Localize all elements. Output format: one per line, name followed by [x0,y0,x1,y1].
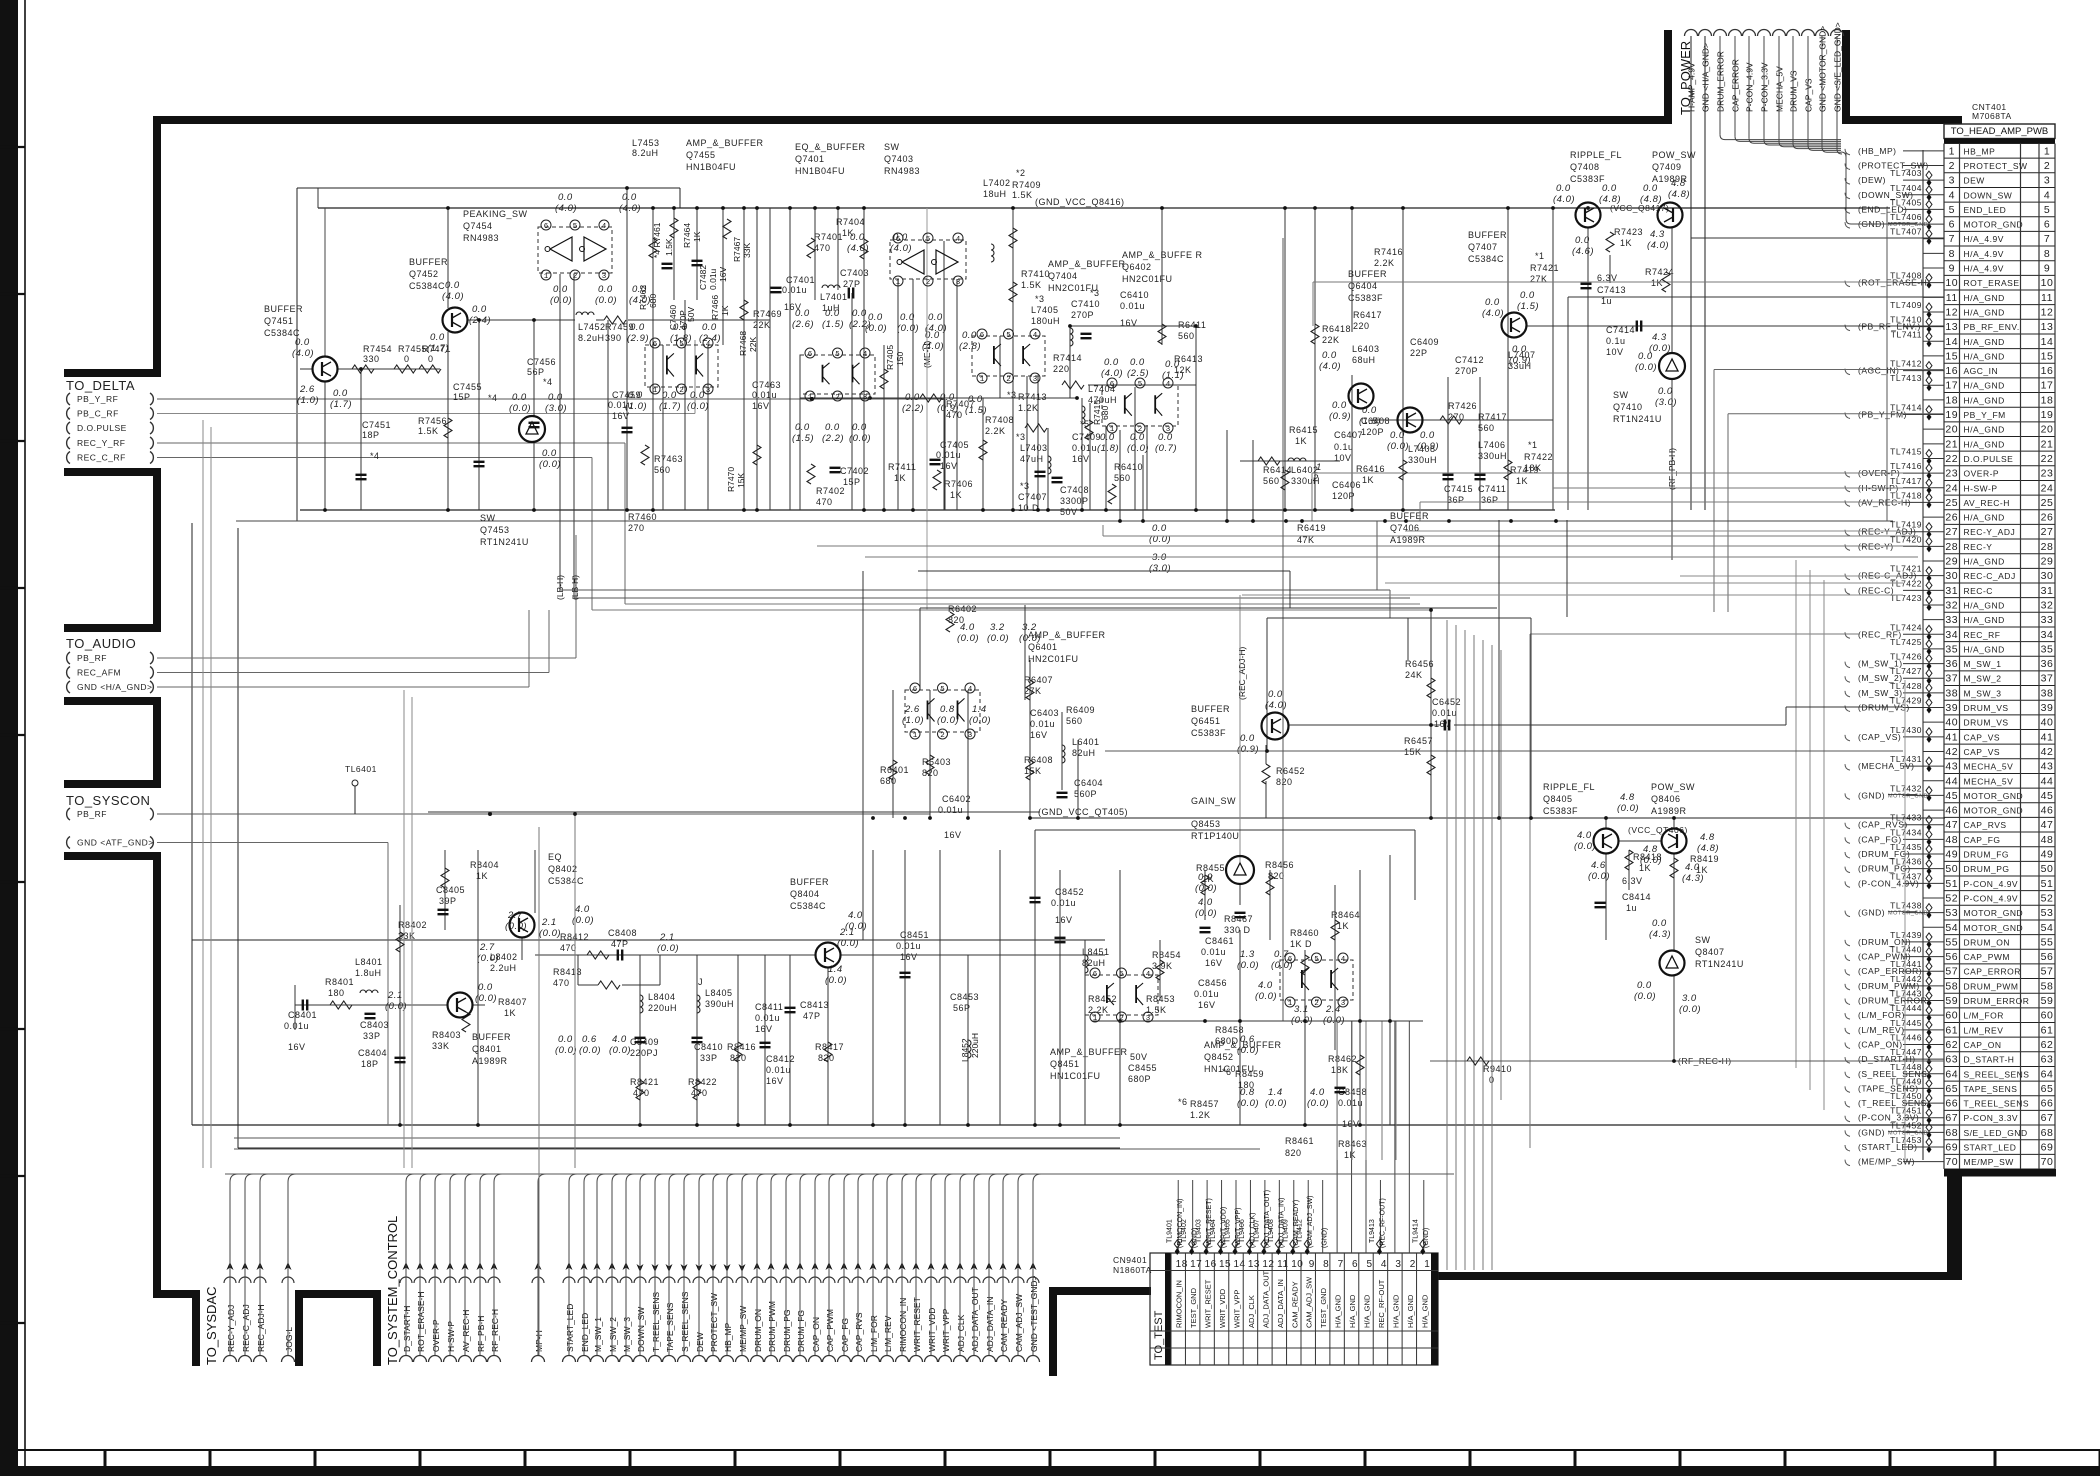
svg-text:H/A_GND: H/A_GND [1964,513,2005,523]
svg-text:0.8: 0.8 [940,704,955,715]
svg-text:(0.0): (0.0) [579,1045,601,1056]
svg-text:Q8405: Q8405 [1543,794,1573,804]
svg-text:4: 4 [1341,956,1346,964]
svg-text:R6417: R6417 [1353,310,1382,320]
svg-text:R7454: R7454 [363,344,392,354]
resistors (horizontal) [352,365,374,373]
svg-text:EQ: EQ [548,852,562,862]
svg-text:(4.0): (4.0) [619,203,641,214]
svg-text:68: 68 [1945,1127,1958,1139]
svg-text:(REC_RF-OUT): (REC_RF-OUT) [1379,1198,1386,1248]
svg-text:M7068TA: M7068TA [1972,111,2012,121]
svg-text:C6409: C6409 [1410,337,1439,347]
svg-text:TL7423: TL7423 [1890,593,1922,603]
svg-text:RF_PB-H: RF_PB-H [476,1316,486,1352]
svg-text:28: 28 [2041,541,2054,553]
svg-text:L/M_REV: L/M_REV [883,1315,893,1352]
transistor Q8404 [816,943,841,968]
svg-text:(2.9): (2.9) [627,333,649,344]
svg-text:11: 11 [2041,292,2053,304]
svg-text:TL9405: TL9405 [1225,1219,1232,1243]
svg-text:(4.0): (4.0) [555,203,577,214]
svg-text:1: 1 [896,279,901,287]
svg-text:DEW: DEW [695,1332,705,1352]
svg-text:52: 52 [1945,892,1958,904]
upper block bottom rail [300,509,1555,511]
svg-text:0.0: 0.0 [598,284,613,295]
svg-text:1K: 1K [1344,1150,1356,1160]
svg-text:H/A_GND: H/A_GND [1964,644,2005,654]
svg-text:560: 560 [654,465,671,475]
svg-text:(DRUM_VS): (DRUM_VS) [1858,703,1910,713]
svg-text:L/M_FOR: L/M_FOR [1964,1011,2004,1021]
svg-text:T_REEL_SENS: T_REEL_SENS [651,1292,661,1352]
svg-text:46: 46 [1945,805,1958,817]
svg-text:AMP_&_BUFFER: AMP_&_BUFFER [1050,1047,1128,1057]
svg-text:D_START-H: D_START-H [1964,1055,2015,1065]
svg-text:R7470: R7470 [726,467,736,492]
svg-text:(GND): (GND) [1858,908,1885,918]
svg-text:R7408: R7408 [985,415,1014,425]
svg-text:3.0: 3.0 [1682,993,1697,1004]
svg-text:CAP_ERROR: CAP_ERROR [1964,967,2021,977]
transistor Q7452 [443,308,468,333]
svg-text:0.0: 0.0 [850,232,865,243]
svg-text:Q7401: Q7401 [795,154,825,164]
svg-text:ADJ_DATA_OUT: ADJ_DATA_OUT [1261,1270,1270,1328]
svg-text:64: 64 [2041,1068,2054,1080]
svg-text:ADJ_CLK: ADJ_CLK [956,1314,966,1352]
svg-text:64: 64 [1945,1068,1958,1080]
svg-text:47P: 47P [803,1011,821,1021]
svg-text:18: 18 [2041,394,2054,406]
svg-text:C8455: C8455 [1128,1063,1157,1073]
svg-text:(0.9): (0.9) [937,403,959,414]
svg-text:REC_AFM: REC_AFM [77,668,121,678]
svg-text:H/A_GND: H/A_GND [1964,557,2005,567]
svg-text:R7422: R7422 [1524,452,1553,462]
svg-text:0.1u: 0.1u [1334,442,1354,452]
svg-text:1: 1 [1316,462,1322,473]
svg-text:5: 5 [1314,956,1319,964]
svg-text:R7416: R7416 [1374,247,1403,257]
svg-text:15: 15 [1945,350,1958,362]
svg-text:0.0: 0.0 [1638,351,1653,362]
svg-text:18: 18 [1176,1259,1188,1270]
svg-text:18: 18 [1945,394,1958,406]
svg-text:46: 46 [2041,805,2054,817]
svg-text:1: 1 [913,732,918,740]
svg-text:4: 4 [968,686,973,694]
svg-text:GND <H/A_GND>: GND <H/A_GND> [77,682,152,692]
svg-text:33: 33 [1945,614,1958,626]
svg-text:H/A_GND: H/A_GND [1964,395,2005,405]
svg-text:1K D: 1K D [1290,939,1312,949]
svg-text:10: 10 [2041,277,2054,289]
svg-text:C8453: C8453 [950,992,979,1002]
svg-text:270P: 270P [1455,366,1478,376]
svg-text:4.8: 4.8 [1671,178,1686,189]
svg-text:*2: *2 [1016,168,1026,178]
svg-text:47P: 47P [611,939,629,949]
svg-text:560: 560 [1178,331,1195,341]
svg-text:(0.0): (0.0) [539,459,561,470]
svg-text:2: 2 [573,273,578,281]
svg-text:START_LED: START_LED [1964,1143,2017,1153]
svg-text:REC_Y_RF: REC_Y_RF [77,438,125,448]
svg-text:(4.8): (4.8) [1599,194,1621,205]
svg-text:(0.0): (0.0) [1640,855,1662,866]
svg-text:30: 30 [1945,570,1958,582]
svg-text:0.01u: 0.01u [938,805,963,815]
transistor Q8405 [1594,829,1619,854]
svg-text:20: 20 [2041,424,2054,436]
svg-text:(0.9): (0.9) [1417,441,1439,452]
transistor Q7451 [313,357,338,382]
svg-text:0.0: 0.0 [825,422,840,433]
svg-text:PB_RF: PB_RF [77,809,107,819]
svg-text:MOTOR_GND: MOTOR_GND [1964,908,2024,918]
svg-text:16V: 16V [1198,1000,1216,1010]
package Q7454 inverter pair [538,227,612,273]
svg-text:CAP_VS: CAP_VS [1964,747,2001,757]
svg-text:PEAKING_SW: PEAKING_SW [463,209,528,219]
svg-text:62: 62 [2041,1039,2054,1051]
svg-text:(DEW): (DEW) [1858,175,1886,185]
svg-text:DEW: DEW [1964,176,1985,186]
svg-text:2.1: 2.1 [659,932,675,943]
svg-text:(GND): (GND) [1858,790,1885,800]
svg-text:C5384C: C5384C [790,901,826,911]
package Q7404 [972,336,1045,376]
svg-text:68: 68 [2041,1127,2054,1139]
transistor Q8401 [448,993,473,1018]
svg-text:PB_Y_FM: PB_Y_FM [1964,410,2006,420]
svg-text:R8460: R8460 [1290,928,1319,938]
svg-text:1u: 1u [1626,903,1637,913]
svg-text:TL9414: TL9414 [1412,1219,1419,1243]
svg-text:0.0: 0.0 [852,422,867,433]
svg-text:CAP_RVS: CAP_RVS [1964,820,2007,830]
svg-text:(2.6): (2.6) [792,319,814,330]
svg-text:50V: 50V [1130,1052,1148,1062]
svg-text:RN4983: RN4983 [463,233,499,243]
svg-text:5: 5 [1366,1259,1372,1270]
svg-text:680D: 680D [1215,1036,1239,1046]
svg-text:16V: 16V [1205,958,1223,968]
svg-text:27P: 27P [843,279,861,289]
svg-text:C7413: C7413 [1597,285,1626,295]
svg-text:120P: 120P [1361,427,1384,437]
svg-text:220uH: 220uH [648,1003,677,1013]
svg-text:32: 32 [1945,599,1958,611]
svg-text:560P: 560P [1074,789,1097,799]
svg-text:63: 63 [1945,1054,1958,1066]
svg-text:560: 560 [1263,476,1280,486]
svg-text:3: 3 [1166,426,1171,434]
svg-text:POW_SW: POW_SW [1652,150,1696,160]
svg-text:6: 6 [1352,1259,1358,1270]
svg-text:5: 5 [679,341,684,349]
package Q7455 [645,345,718,387]
svg-text:1: 1 [653,387,658,395]
inductors (vertical) [991,244,994,250]
svg-text:RF_REC-H: RF_REC-H [490,1309,500,1352]
svg-text:0.0: 0.0 [630,322,645,333]
svg-text:38: 38 [1945,687,1958,699]
svg-text:TO_SYSTEM_CONTROL: TO_SYSTEM_CONTROL [385,1216,400,1365]
svg-text:R6456: R6456 [1405,659,1434,669]
svg-text:WRIT_RESET: WRIT_RESET [912,1297,922,1352]
svg-text:GAIN_SW: GAIN_SW [1191,796,1236,806]
svg-text:25: 25 [2041,497,2054,509]
svg-text:6: 6 [980,332,985,340]
svg-text:TL7438: TL7438 [1890,901,1922,911]
svg-text:0.0: 0.0 [558,1034,573,1045]
svg-text:R6418: R6418 [1322,324,1351,334]
svg-text:0.0: 0.0 [1556,183,1571,194]
svg-text:BUFFER: BUFFER [1348,269,1387,279]
svg-text:CAP_RVS: CAP_RVS [854,1312,864,1352]
sheet bottom scale row [0,1449,2100,1451]
svg-text:C7411: C7411 [1478,484,1506,494]
svg-text:R8467: R8467 [1224,914,1253,924]
svg-text:54: 54 [1945,922,1958,934]
svg-text:M_SW_2: M_SW_2 [1964,674,2002,684]
svg-text:TL9406: TL9406 [1239,1219,1246,1243]
svg-text:AGC_IN: AGC_IN [1964,366,1999,376]
svg-text:4.0: 4.0 [1310,1087,1325,1098]
svg-text:65: 65 [2041,1083,2054,1095]
svg-text:R6410: R6410 [1114,462,1143,472]
svg-text:2: 2 [926,279,931,287]
svg-text:DOWN_SW: DOWN_SW [1964,190,2013,200]
svg-text:Q6402: Q6402 [1122,262,1152,272]
svg-text:RT1N241U: RT1N241U [1613,414,1662,424]
svg-text:MOTOR_GND: MOTOR_GND [1964,220,2024,230]
svg-text:1.2K: 1.2K [1018,403,1039,413]
svg-text:C6402: C6402 [942,794,971,804]
svg-text:16V: 16V [940,461,958,471]
svg-text:70: 70 [2041,1156,2054,1168]
svg-text:JOG-L: JOG-L [284,1327,294,1352]
transistor Q7453 [519,416,545,442]
svg-text:44: 44 [2041,775,2054,787]
svg-text:3: 3 [1033,376,1038,384]
svg-text:24: 24 [1945,482,1958,494]
svg-text:(3.0): (3.0) [545,403,567,414]
svg-text:M_SW_3: M_SW_3 [622,1317,632,1352]
svg-text:(CAM_ADJ_SW): (CAM_ADJ_SW) [1307,1195,1314,1248]
svg-text:Q7454: Q7454 [463,221,493,231]
svg-text:BUFFER: BUFFER [790,877,829,887]
GND_VCC_QT405 rail [1030,817,1945,819]
svg-text:ADJ_CLK: ADJ_CLK [1247,1295,1256,1328]
svg-text:0.0: 0.0 [472,304,487,315]
svg-text:*3: *3 [1090,288,1100,298]
svg-text:9: 9 [2044,263,2050,275]
svg-text:MECHA_5V: MECHA_5V [1964,776,2014,786]
svg-text:2: 2 [1314,1000,1319,1008]
svg-text:2: 2 [1410,1259,1416,1270]
svg-text:RIPPLE_FL: RIPPLE_FL [1570,150,1622,160]
svg-text:H/A_GND: H/A_GND [1964,351,2005,361]
svg-text:(1.7): (1.7) [659,401,681,412]
svg-text:R8463: R8463 [1338,1139,1367,1149]
svg-text:T_REEL_SENS: T_REEL_SENS [1964,1099,2030,1109]
svg-text:1.4: 1.4 [972,704,987,715]
svg-text:0.01u: 0.01u [896,941,921,951]
svg-text:1K: 1K [1362,475,1374,485]
svg-text:330uH: 330uH [1408,455,1437,465]
svg-text:1.4: 1.4 [1268,1087,1283,1098]
svg-text:R6415: R6415 [1289,425,1318,435]
svg-text:C7410: C7410 [1071,299,1100,309]
svg-text:CAP_FG: CAP_FG [1964,835,2001,845]
svg-text:(0.0): (0.0) [657,943,679,954]
svg-text:16V: 16V [766,1076,784,1086]
svg-text:(4.0): (4.0) [1265,700,1287,711]
svg-text:0.01u: 0.01u [766,1065,791,1075]
svg-text:39: 39 [2041,702,2054,714]
TO_AUDIO wires [157,657,576,659]
svg-text:L6403: L6403 [1352,344,1380,354]
svg-text:L/M_REV: L/M_REV [1964,1025,2004,1035]
svg-text:41: 41 [1945,731,1958,743]
svg-text:19: 19 [2041,409,2054,421]
svg-text:1.2K: 1.2K [1190,1110,1211,1120]
schematic border: top bar [153,116,1668,124]
svg-text:SW: SW [1695,935,1711,945]
svg-text:C5383F: C5383F [1543,806,1578,816]
upper inner frame wires [297,187,680,189]
svg-text:0.0: 0.0 [542,448,557,459]
svg-text:TL9404: TL9404 [1210,1219,1217,1243]
svg-text:M_SW_1: M_SW_1 [1964,659,2002,669]
svg-text:4.3: 4.3 [1652,332,1667,343]
svg-text:C7402: C7402 [840,466,869,476]
svg-text:C8461: C8461 [1205,936,1234,946]
svg-text:(4.8): (4.8) [1640,194,1662,205]
svg-text:TL9413: TL9413 [1369,1219,1376,1243]
svg-text:H/A_GND: H/A_GND [1964,293,2005,303]
svg-text:0.01u: 0.01u [755,1013,780,1023]
svg-text:P-CON_4.9V: P-CON_4.9V [1964,893,2019,903]
svg-text:43: 43 [1945,761,1958,773]
svg-text:C8456: C8456 [1198,978,1227,988]
svg-text:1.5K: 1.5K [1146,1005,1167,1015]
svg-text:DRUM_FG: DRUM_FG [1964,850,2010,860]
svg-text:6.3V: 6.3V [1622,876,1643,886]
svg-text:Q8406: Q8406 [1651,794,1681,804]
svg-text:OVER-P: OVER-P [1964,469,2000,479]
svg-text:2.6: 2.6 [299,384,315,395]
svg-text:18P: 18P [361,1059,379,1069]
svg-text:8.2uH: 8.2uH [578,333,605,343]
svg-text:0.0: 0.0 [1130,357,1145,368]
svg-text:220: 220 [1353,321,1370,331]
svg-text:C5383F: C5383F [1348,293,1383,303]
svg-text:H/A_GND: H/A_GND [1964,425,2005,435]
svg-text:1.5K: 1.5K [664,238,674,256]
svg-text:R8452: R8452 [1088,994,1117,1004]
svg-text:DRUM_ON: DRUM_ON [1964,937,2010,947]
svg-text:0.0: 0.0 [1602,183,1617,194]
svg-text:0.0: 0.0 [1322,350,1337,361]
svg-text:REC-C_ADJ: REC-C_ADJ [1964,571,2016,581]
svg-text:(CAP_VS): (CAP_VS) [1858,732,1901,742]
svg-text:180uH: 180uH [1031,316,1060,326]
svg-text:(4.0): (4.0) [1482,308,1504,319]
svg-text:R8403: R8403 [432,1030,461,1040]
svg-text:C7482: C7482 [698,265,708,290]
svg-text:HN1B04FU: HN1B04FU [686,162,736,172]
svg-text:2: 2 [1119,1015,1124,1023]
svg-text:4.0: 4.0 [575,904,590,915]
svg-text:R6457: R6457 [1404,736,1433,746]
svg-text:68uH: 68uH [1352,355,1376,365]
svg-text:TL9401: TL9401 [1167,1219,1174,1243]
svg-text:1: 1 [1288,1000,1293,1008]
svg-text:TL7432: TL7432 [1890,783,1922,793]
svg-text:15P: 15P [453,392,471,402]
svg-text:H/A_GND: H/A_GND [1964,439,2005,449]
svg-text:(GND): (GND) [1858,1127,1885,1137]
transistor Q7407 [1502,313,1527,338]
svg-text:2.1: 2.1 [839,927,855,938]
svg-text:R9410: R9410 [1483,1064,1512,1074]
svg-text:DRUM_VS: DRUM_VS [1964,703,2009,713]
svg-text:BUFFER: BUFFER [409,257,448,267]
svg-text:1.5K: 1.5K [418,426,439,436]
svg-text:S_REEL_SENS: S_REEL_SENS [1964,1069,2030,1079]
svg-text:(1.0): (1.0) [297,395,319,406]
svg-text:3.2: 3.2 [1022,622,1037,633]
svg-text:TL6401: TL6401 [345,764,377,774]
svg-text:82uH: 82uH [1072,748,1096,758]
svg-text:0.1u: 0.1u [1606,336,1626,346]
svg-text:22K: 22K [753,320,771,330]
svg-text:4: 4 [602,223,607,231]
svg-text:16V: 16V [752,401,770,411]
svg-text:66: 66 [2041,1098,2054,1110]
svg-text:57: 57 [1945,966,1958,978]
svg-text:M_SW_3: M_SW_3 [1964,688,2002,698]
svg-text:330uH: 330uH [1478,451,1507,461]
svg-text:(0.0): (0.0) [1635,362,1657,373]
svg-text:3: 3 [602,273,607,281]
svg-text:1K: 1K [1295,436,1307,446]
svg-text:CAP_PWM: CAP_PWM [825,1309,835,1352]
svg-text:57: 57 [2041,966,2054,978]
svg-text:Q8401: Q8401 [472,1044,502,1054]
svg-text:53: 53 [2041,907,2054,919]
svg-text:3.9K: 3.9K [1152,961,1173,971]
svg-text:12: 12 [1262,1259,1274,1270]
svg-text:680P: 680P [1128,1074,1151,1084]
svg-text:(0.0): (0.0) [687,401,709,412]
svg-text:(2.2): (2.2) [822,433,844,444]
svg-text:5: 5 [573,223,578,231]
svg-text:10: 10 [1945,277,1958,289]
svg-text:START_LED: START_LED [565,1304,575,1352]
svg-text:REC-Y: REC-Y [1964,542,1993,552]
svg-text:34: 34 [2041,629,2054,641]
svg-text:13: 13 [2041,321,2054,333]
svg-text:(1.5): (1.5) [792,433,814,444]
svg-text:TL7415: TL7415 [1890,446,1922,456]
svg-text:67: 67 [1945,1112,1958,1124]
